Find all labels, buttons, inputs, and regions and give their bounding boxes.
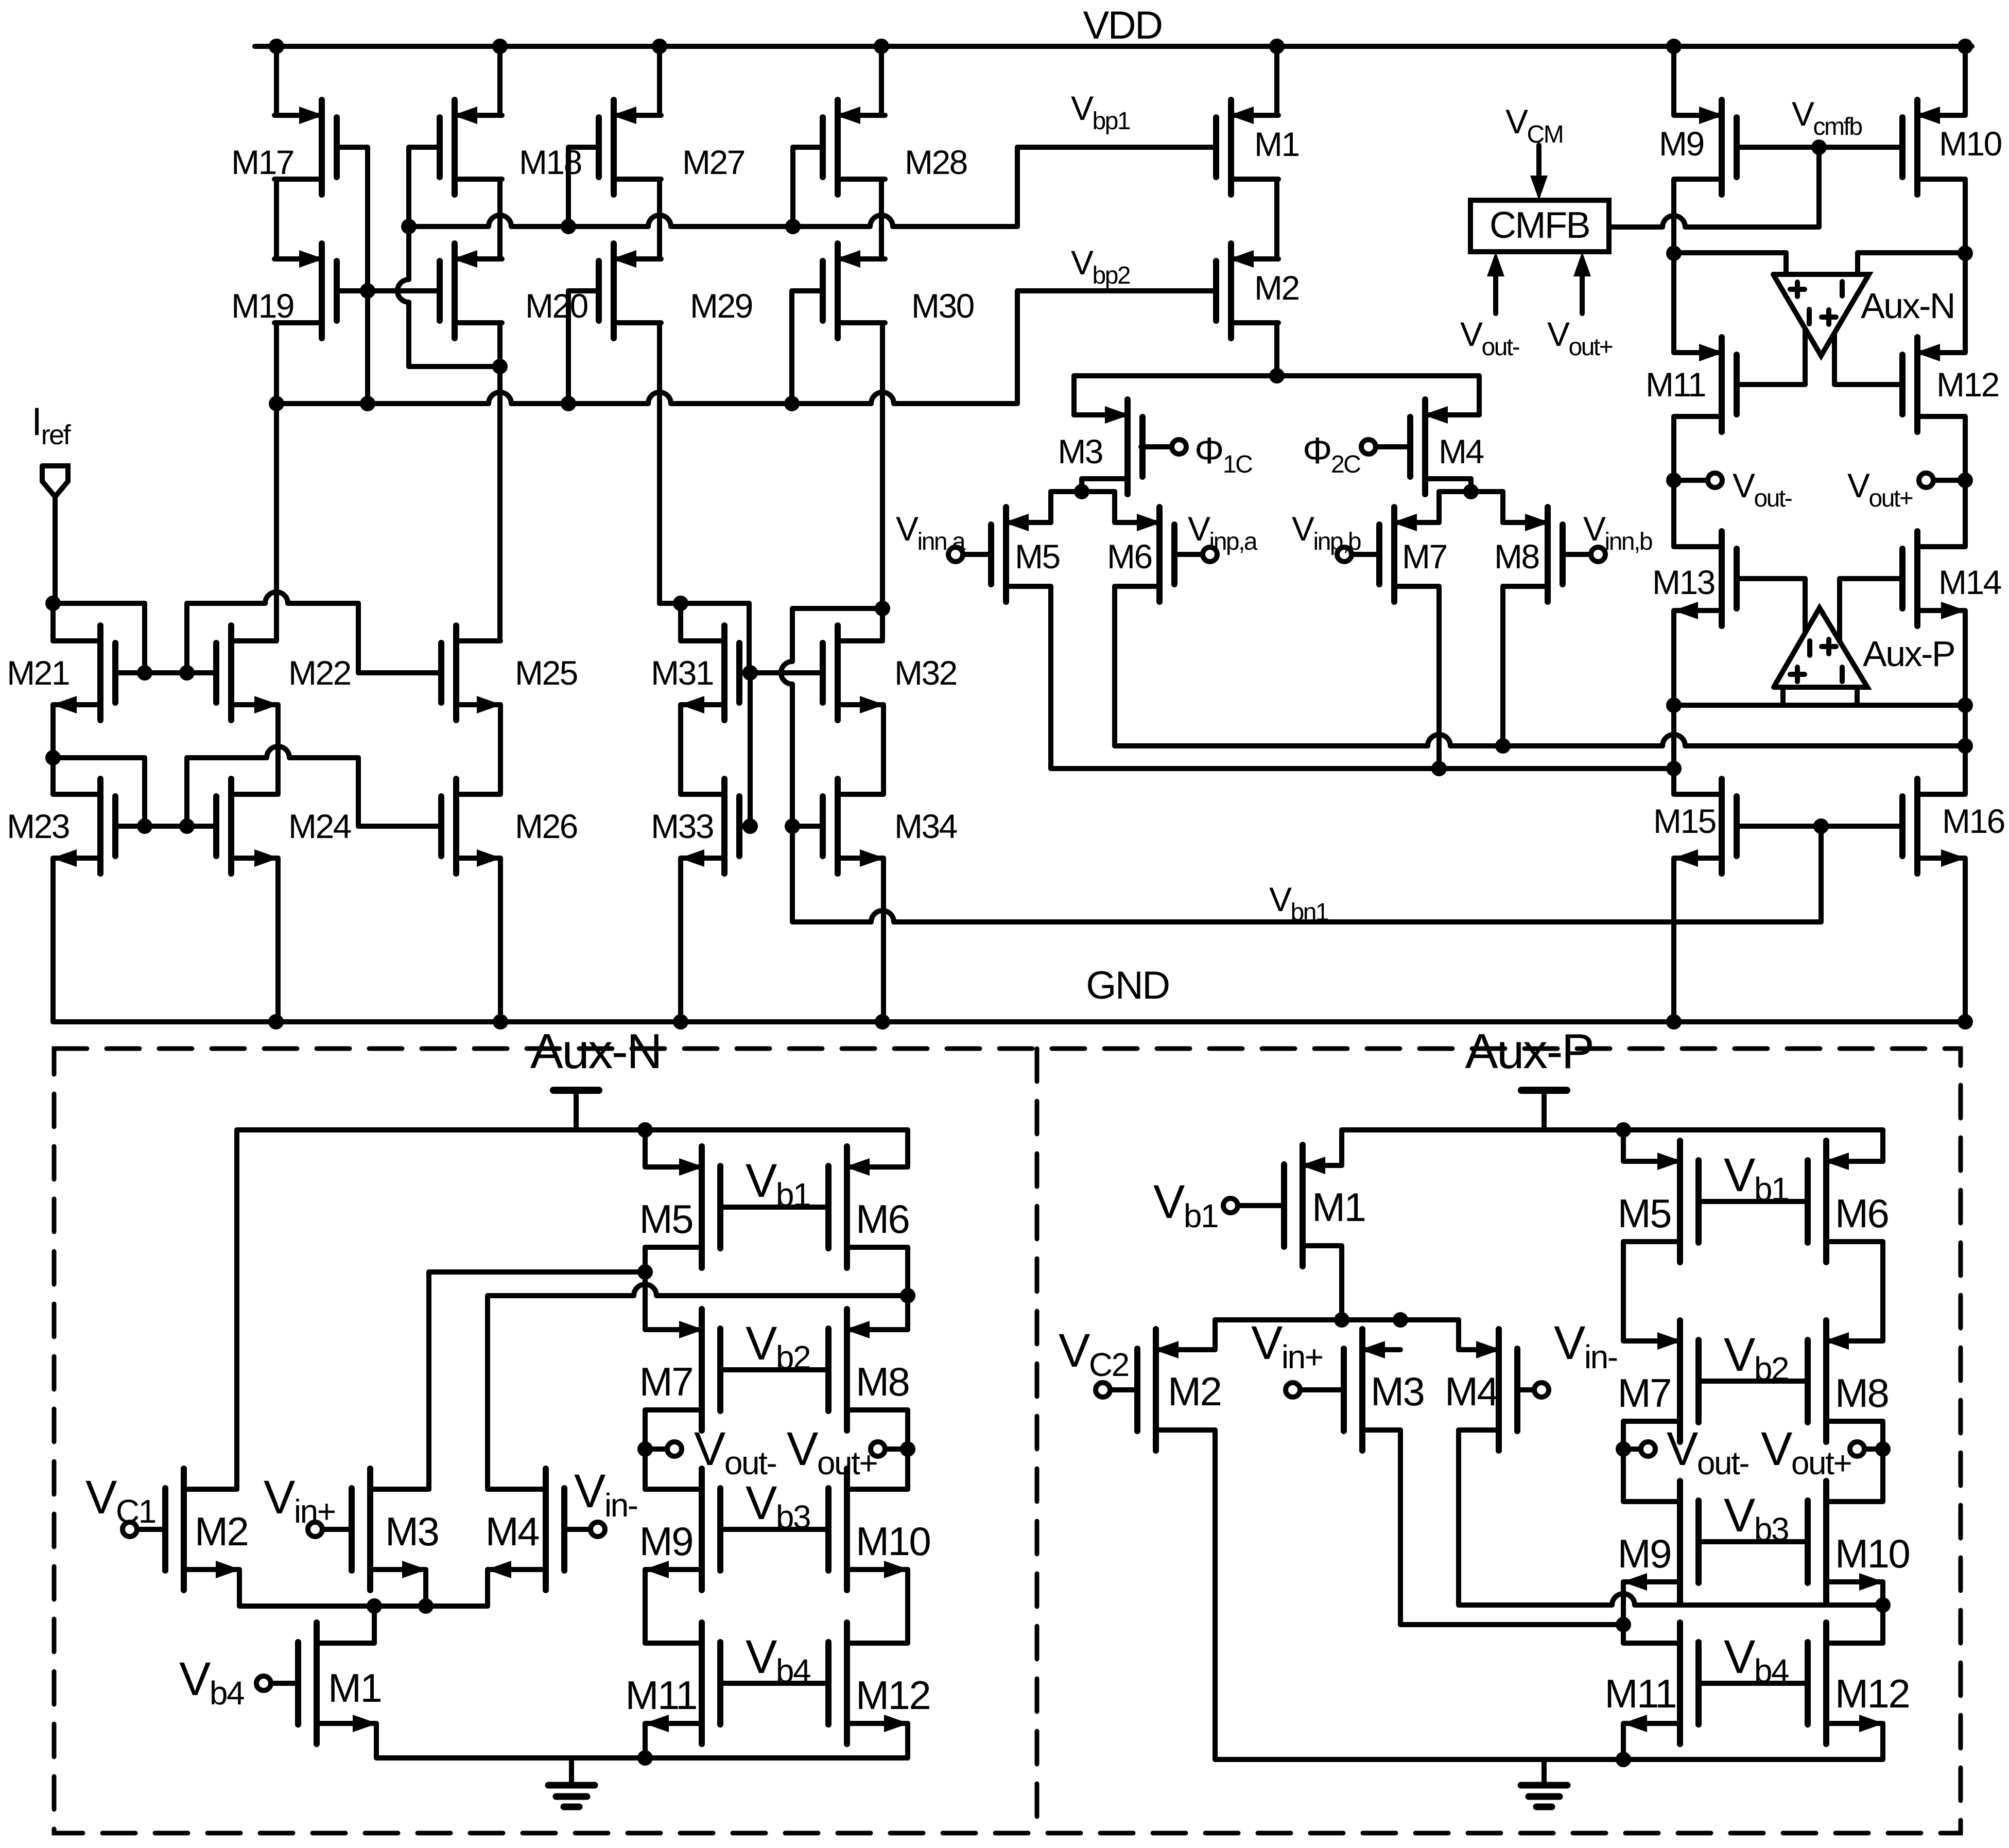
svg-text:Aux-N: Aux-N [530,1024,661,1079]
svg-text:M8: M8 [1494,537,1539,576]
svg-text:M1: M1 [1312,1184,1365,1230]
svg-text:Aux-P: Aux-P [1863,634,1954,674]
svg-text:M33: M33 [651,807,713,845]
svg-text:M3: M3 [1058,432,1102,470]
svg-text:M6: M6 [1835,1191,1888,1236]
svg-text:M21: M21 [7,654,69,692]
svg-text:VDD: VDD [1083,4,1162,47]
svg-text:M30: M30 [911,287,974,325]
svg-text:M22: M22 [288,654,351,692]
svg-text:M14: M14 [1938,563,2001,601]
svg-text:M8: M8 [856,1359,909,1404]
svg-text:M20: M20 [525,287,588,325]
svg-text:M13: M13 [1652,563,1714,601]
svg-text:M3: M3 [1371,1369,1424,1414]
svg-text:M16: M16 [1942,802,2004,840]
svg-text:Aux-N: Aux-N [1861,286,1954,326]
svg-text:M12: M12 [1936,365,1999,404]
svg-text:Aux-P: Aux-P [1465,1024,1594,1079]
svg-text:M6: M6 [856,1196,909,1242]
svg-text:M9: M9 [1618,1531,1671,1576]
svg-text:M7: M7 [639,1359,692,1404]
svg-text:M12: M12 [856,1672,930,1718]
svg-text:M7: M7 [1618,1370,1671,1416]
svg-text:M2: M2 [1168,1369,1221,1414]
svg-text:M9: M9 [1659,125,1704,163]
svg-text:M15: M15 [1653,802,1716,840]
svg-text:M11: M11 [1646,365,1705,404]
svg-text:M6: M6 [1107,537,1152,576]
svg-text:M1: M1 [328,1665,381,1711]
svg-text:M18: M18 [519,143,581,181]
svg-text:M2: M2 [1254,269,1299,307]
svg-text:M11: M11 [1605,1671,1676,1716]
svg-text:M7: M7 [1402,537,1447,576]
svg-text:M1: M1 [1254,125,1299,163]
svg-text:M17: M17 [231,143,293,181]
svg-text:M4: M4 [486,1509,539,1554]
svg-text:M2: M2 [195,1509,248,1554]
svg-text:M32: M32 [894,654,957,692]
svg-text:M5: M5 [1618,1191,1671,1236]
svg-text:M3: M3 [385,1509,438,1554]
svg-text:M10: M10 [1939,125,2002,163]
svg-text:GND: GND [1086,964,1169,1007]
svg-text:M29: M29 [690,287,752,325]
svg-text:M8: M8 [1835,1370,1888,1416]
svg-text:M31: M31 [651,654,713,692]
svg-text:M12: M12 [1835,1671,1909,1716]
svg-text:M10: M10 [1835,1531,1909,1576]
svg-text:M11: M11 [626,1672,697,1718]
svg-text:CMFB: CMFB [1490,205,1589,246]
svg-text:M5: M5 [639,1196,692,1242]
svg-text:M19: M19 [231,287,293,325]
svg-text:M25: M25 [515,654,577,692]
svg-text:M34: M34 [894,807,957,845]
svg-text:M9: M9 [639,1519,692,1564]
svg-text:M27: M27 [682,143,744,181]
svg-text:M10: M10 [856,1519,930,1564]
svg-text:M26: M26 [515,807,577,845]
svg-text:M4: M4 [1445,1369,1498,1414]
svg-text:M5: M5 [1015,537,1060,576]
svg-text:M28: M28 [905,143,967,181]
svg-text:M23: M23 [7,807,69,845]
svg-text:M4: M4 [1439,432,1483,470]
svg-text:M24: M24 [288,807,351,845]
